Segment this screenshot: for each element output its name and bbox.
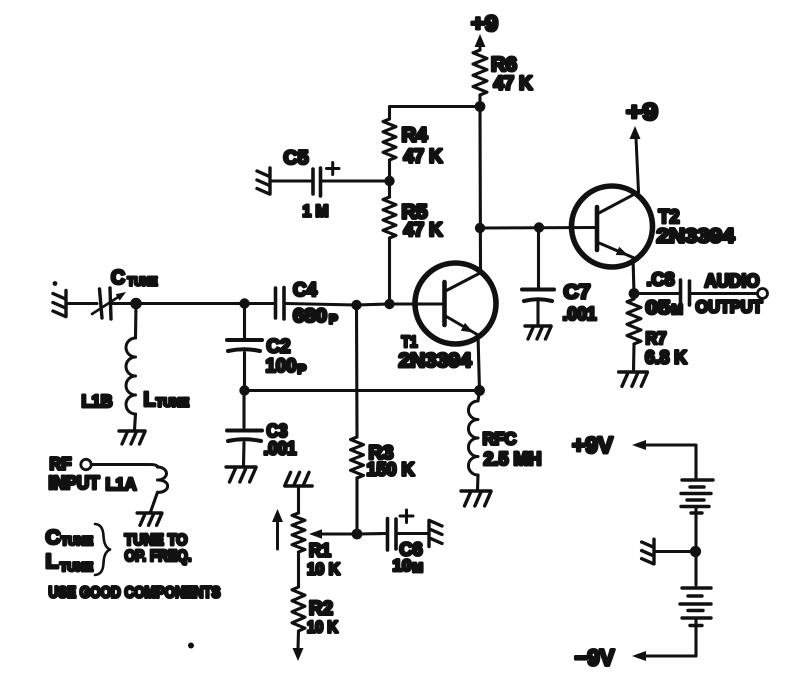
svg-text:.001: .001 [563, 304, 597, 324]
svg-text:T1: T1 [402, 334, 418, 351]
wire T1 emitter down [478, 335, 480, 391]
wire C8-output [692, 292, 757, 295]
resistor R2 [292, 587, 305, 631]
svg-text:L1B: L1B [82, 391, 113, 411]
node battery mid [690, 546, 701, 557]
svg-text:OUTPUT: OUTPUT [696, 297, 763, 317]
svg-text:TUNE: TUNE [128, 275, 158, 289]
svg-text:2N3394: 2N3394 [657, 226, 736, 248]
ground R7 [619, 372, 648, 386]
svg-text:2N3394: 2N3394 [399, 350, 473, 372]
wire R2-arrow [296, 631, 300, 649]
ground Ltune [119, 431, 145, 444]
node lower-rail left [239, 385, 249, 395]
capacitor C7 [522, 288, 554, 292]
output terminal [758, 289, 768, 299]
node A [475, 101, 486, 112]
ground above R1 [285, 472, 312, 486]
ground C6 [429, 521, 442, 547]
svg-text:C: C [111, 267, 125, 289]
svg-text:.C8: .C8 [647, 270, 675, 290]
svg-text:10 K: 10 K [307, 560, 341, 579]
svg-text:C5: C5 [284, 147, 309, 169]
Ctune arrow [92, 297, 119, 315]
svg-text:C: C [46, 526, 61, 549]
stray dot 2 [188, 643, 194, 649]
svg-text:.001: .001 [264, 439, 297, 459]
svg-text:L: L [144, 389, 156, 411]
node emitter/C8/R7 [629, 288, 640, 299]
ground C3 [226, 467, 256, 482]
wire to C2 node [136, 302, 245, 305]
svg-text:TUNE: TUNE [156, 396, 189, 410]
wire lower rail [245, 389, 480, 392]
ground RFC [461, 491, 491, 506]
wire top rail [390, 107, 481, 120]
brace [95, 524, 110, 575]
node emitter/rail/RFC [474, 385, 485, 396]
svg-text:INPUT: INPUT [49, 473, 100, 493]
svg-text:C7: C7 [564, 282, 591, 304]
svg-text:R2: R2 [309, 599, 333, 620]
wire to C8 [634, 292, 678, 295]
C5 plus [327, 167, 340, 170]
arrow up +9 [475, 34, 486, 47]
ground L1A [137, 513, 162, 525]
svg-text:6.8 K: 6.8 K [645, 347, 688, 368]
capacitor C6 [386, 519, 390, 551]
wire R4-R5 [388, 160, 391, 197]
capacitor C3 [242, 391, 245, 428]
wire gnd-C5 [271, 179, 311, 182]
svg-text:150 K: 150 K [367, 459, 416, 480]
wire C7-gnd [536, 302, 539, 325]
svg-text:−9V: −9V [575, 645, 616, 671]
wire C6-gnd [399, 532, 429, 535]
wire gnd-R1 [297, 486, 300, 513]
resistor R5 [383, 197, 396, 238]
svg-text:L1A: L1A [106, 474, 137, 494]
wire T2 emitter [633, 258, 634, 294]
inductor L1A [92, 465, 158, 468]
wire R5 to rail [388, 238, 391, 304]
svg-text:+9: +9 [626, 99, 658, 126]
svg-text:1 M: 1 M [303, 202, 329, 221]
arrow up T2 [630, 126, 641, 139]
wire nodeA to T1 collector [478, 107, 482, 273]
svg-text:R1: R1 [309, 541, 331, 561]
node R5/rail [384, 299, 394, 309]
pot wiper arrow [321, 532, 357, 535]
wire R1-R2 [297, 552, 300, 587]
ground C7 [525, 326, 551, 339]
node R3 branch [351, 300, 361, 310]
wire T2 base [480, 226, 597, 230]
transistor T1 [415, 263, 496, 344]
stray dot [53, 281, 58, 286]
svg-text:47 K: 47 K [404, 220, 443, 241]
wire C7 [537, 228, 540, 288]
inductor RFC [478, 391, 480, 402]
capacitor C4 [274, 288, 278, 318]
wire C5-junction [323, 179, 390, 182]
node C2 branch [239, 298, 249, 308]
svg-text:RFC: RFC [483, 429, 517, 449]
node R4/R5/C5 [384, 176, 394, 186]
wire to C4 [245, 302, 274, 305]
C6 plus [400, 515, 413, 518]
svg-text:TUNE: TUNE [61, 534, 93, 548]
wire R6-nodeA [478, 95, 481, 107]
svg-text:C4: C4 [293, 279, 317, 301]
svg-text:+9: +9 [471, 11, 498, 36]
svg-text:AUDIO: AUDIO [705, 271, 760, 291]
input terminal [81, 459, 91, 469]
wire Ctune-node [113, 302, 136, 305]
transistor T2 [572, 186, 653, 267]
svg-text:+9V: +9V [572, 432, 614, 458]
node T2-base branch [475, 223, 485, 233]
node R3/R1/C6 [352, 529, 363, 540]
svg-text:RF: RF [50, 454, 72, 474]
svg-text:47 K: 47 K [494, 74, 533, 95]
capacitor C8 [679, 280, 683, 306]
resistor R6 [473, 50, 487, 95]
resistor R1 [292, 513, 305, 552]
ground C5 [257, 168, 270, 194]
resistor R4 [383, 119, 396, 160]
ground antenna [53, 291, 66, 317]
svg-text:R7: R7 [646, 328, 667, 348]
ground battery [642, 539, 654, 564]
up arrow pot [276, 521, 279, 549]
svg-text:R4: R4 [402, 125, 429, 147]
svg-text:47 K: 47 K [404, 147, 443, 168]
svg-text:L: L [46, 550, 59, 573]
wire rail to T1 base bar [390, 302, 445, 305]
node Ctune/Ltune [130, 298, 142, 310]
capacitor C TUNE [100, 289, 103, 318]
node C7 top [534, 222, 544, 232]
svg-text:TUNE: TUNE [60, 560, 93, 574]
wire gnd-Ctune [67, 302, 97, 305]
svg-text:2.5 MH: 2.5 MH [484, 448, 542, 469]
resistor R3 [355, 305, 359, 437]
svg-text:10 K: 10 K [307, 619, 338, 637]
svg-text:USE GOOD COMPONENTS: USE GOOD COMPONENTS [49, 585, 221, 602]
wire node-C6 [357, 532, 385, 536]
resistor R7 [627, 299, 641, 344]
inductor L TUNE [134, 304, 138, 339]
battery top wire [644, 445, 696, 478]
wire to R5 node [357, 304, 390, 305]
svg-text:TUNE TO: TUNE TO [125, 532, 188, 549]
battery cell 1 [681, 480, 713, 513]
capacitor C2 [243, 304, 246, 338]
capacitor C5 [311, 169, 315, 194]
wire C4-R3node [287, 304, 357, 306]
battery cell 2 [694, 552, 697, 586]
svg-text:OP. FREQ.: OP. FREQ. [125, 548, 192, 565]
